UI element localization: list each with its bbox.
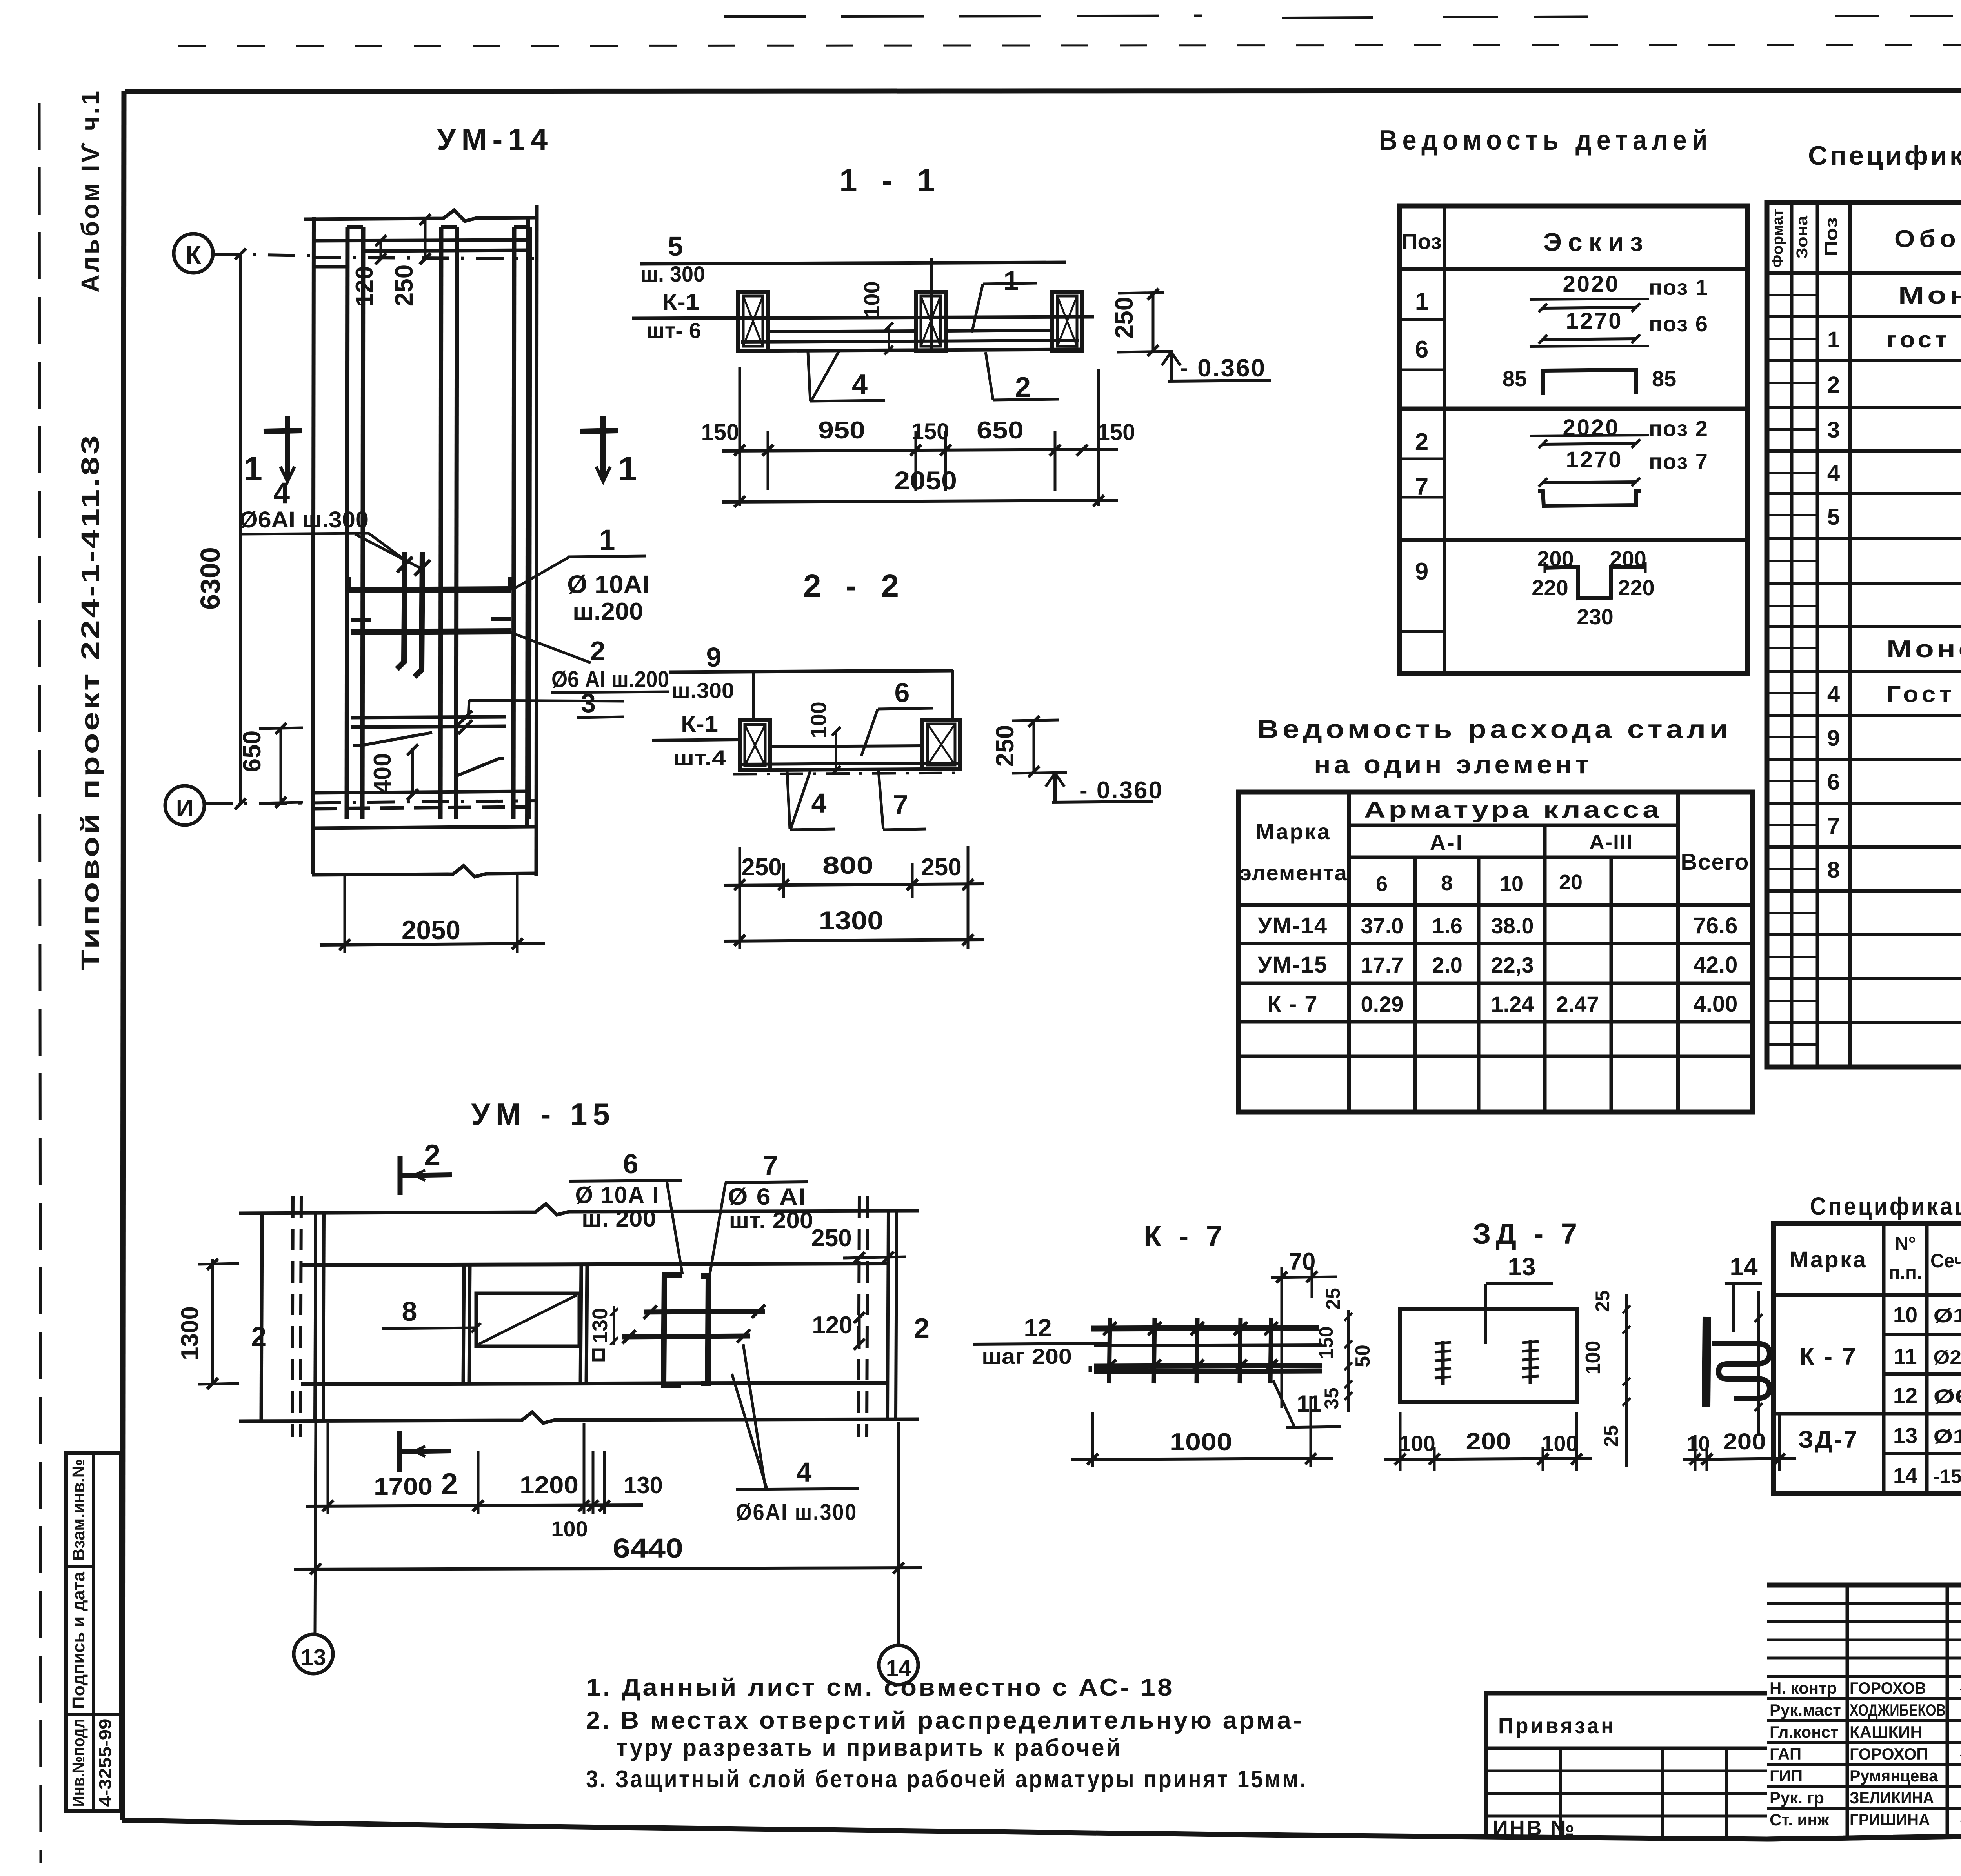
svg-text:Румянцева: Румянцева — [1850, 1767, 1938, 1785]
svg-text:13: 13 — [301, 1645, 326, 1670]
channel open-top shape — [1538, 491, 1641, 506]
svg-text:1: 1 — [244, 450, 262, 488]
svg-text:2.0: 2.0 — [1432, 953, 1463, 977]
svg-text:шт- 6: шт- 6 — [646, 318, 701, 343]
svg-text:220: 220 — [1532, 575, 1568, 600]
slab right ext edge — [536, 205, 537, 876]
dim 2050 — [344, 876, 346, 953]
svg-text:ГОРОХОВ: ГОРОХОВ — [1850, 1679, 1926, 1697]
svg-text:шт.4: шт.4 — [673, 745, 726, 770]
cage top bar — [1091, 1328, 1319, 1329]
scanner edge artifacts top — [724, 16, 1202, 16]
svg-text:13: 13 — [1508, 1252, 1535, 1281]
Спецификация металла table — [1774, 1223, 1961, 1493]
svg-text:ГИП: ГИП — [1770, 1767, 1803, 1785]
svg-text:12: 12 — [1893, 1383, 1917, 1408]
axis circle И — [165, 786, 204, 825]
svg-text:8: 8 — [1441, 871, 1453, 895]
svg-text:Ø10АІ: Ø10АІ — [1934, 1305, 1961, 1327]
rib 1 (vertical beam lines) — [347, 227, 347, 819]
dim 1000 — [1091, 1412, 1094, 1467]
svg-text:шт. 200: шт. 200 — [729, 1208, 813, 1233]
left section verticals — [1846, 1585, 1849, 1838]
section 2 cut mark bottom — [397, 1431, 402, 1472]
svg-text:250: 250 — [991, 725, 1019, 767]
elevation mark -0.360 — [1170, 352, 1173, 381]
svg-text:-150×10: -150×10 — [1934, 1465, 1961, 1487]
svg-text:800: 800 — [822, 852, 873, 879]
inner band bottom line — [301, 1383, 888, 1384]
svg-text:8: 8 — [402, 1296, 417, 1327]
svg-text:- 0.360: - 0.360 — [1079, 777, 1163, 804]
svg-text:ЗЕЛИКИНА: ЗЕЛИКИНА — [1850, 1789, 1934, 1807]
svg-text:50: 50 — [1352, 1345, 1374, 1367]
main frame bottom border — [122, 1820, 1961, 1839]
slab lower outline with break — [312, 866, 535, 877]
svg-text:9: 9 — [1827, 725, 1840, 751]
svg-text:Зона: Зона — [1794, 215, 1811, 259]
leader line К-1 — [652, 740, 740, 740]
svg-text:1200: 1200 — [520, 1472, 578, 1499]
svg-text:К-1: К-1 — [662, 289, 699, 315]
Привязан grid verticals — [1559, 1748, 1562, 1839]
svg-text:ГРИШИНА: ГРИШИНА — [1850, 1811, 1930, 1829]
svg-text:1. Данный лист см. совместн: 1. Данный лист см. совместно с АС- 18 — [586, 1674, 1174, 1701]
svg-text:14: 14 — [1730, 1252, 1758, 1281]
svg-text:6: 6 — [1415, 336, 1428, 363]
bent anchor hook — [1712, 1343, 1770, 1398]
svg-text:2.47: 2.47 — [1556, 992, 1599, 1016]
slab bottom band lines — [313, 791, 528, 793]
svg-text:22,3: 22,3 — [1491, 953, 1534, 977]
svg-text:2: 2 — [1415, 429, 1428, 456]
svg-text:А-ІІІ: А-ІІІ — [1589, 831, 1633, 854]
svg-text:п.п.: п.п. — [1889, 1263, 1922, 1283]
bars poz3 pair — [351, 717, 506, 718]
svg-text:37.0: 37.0 — [1361, 913, 1404, 938]
svg-text:К - 7: К - 7 — [1267, 991, 1318, 1017]
svg-text:100: 100 — [551, 1516, 588, 1541]
svg-text:Инв.№подл: Инв.№подл — [69, 1719, 88, 1807]
svg-text:3: 3 — [1827, 417, 1840, 443]
svg-text:Арматура класса: Арматура класса — [1364, 797, 1662, 823]
beam cross-section right — [1052, 292, 1082, 351]
svg-text:6: 6 — [623, 1149, 639, 1179]
rib 3 — [513, 227, 514, 819]
grid circle 14 — [879, 1645, 918, 1685]
left wall dashed verticals — [292, 1196, 293, 1437]
svg-text:Марка: Марка — [1790, 1247, 1867, 1272]
svg-text:Монолитный участок УМ-15: Монолитный участок УМ-15 — [1886, 636, 1961, 663]
svg-text:4.00: 4.00 — [1694, 991, 1738, 1017]
svg-text:9: 9 — [706, 642, 722, 673]
svg-text:Ø6АІ ш.300: Ø6АІ ш.300 — [736, 1500, 857, 1525]
top rebar poz1 (thick bar) — [347, 589, 511, 590]
svg-text:2: 2 — [251, 1321, 267, 1352]
svg-text:Н. контр: Н. контр — [1770, 1679, 1837, 1697]
svg-text:38.0: 38.0 — [1491, 913, 1534, 938]
svg-text:120: 120 — [812, 1312, 852, 1339]
left end vertical — [261, 1213, 262, 1421]
svg-text:Эскиз: Эскиз — [1543, 227, 1649, 256]
column lines — [1790, 202, 1794, 1067]
svg-text:1700: 1700 — [374, 1473, 433, 1500]
svg-text:4: 4 — [1827, 682, 1840, 707]
weld symbol left — [1441, 1341, 1445, 1385]
svg-text:1270: 1270 — [1566, 308, 1623, 334]
svg-text:2 - 2: 2 - 2 — [803, 568, 907, 604]
rebar poz2 (thick bar) — [351, 631, 511, 632]
svg-text:гост 5781-82: гост 5781-82 — [1886, 327, 1961, 353]
dim 6300 vertical line — [239, 254, 242, 804]
total dim 2050 — [722, 500, 1118, 502]
svg-text:5: 5 — [1827, 504, 1840, 530]
svg-text:Альбом ІѴ ч.1: Альбом ІѴ ч.1 — [76, 89, 104, 293]
beam cross-section left — [740, 720, 770, 770]
leader line 9 / slab top — [669, 671, 953, 672]
svg-text:150: 150 — [701, 420, 739, 445]
svg-text:100: 100 — [1541, 1431, 1578, 1456]
svg-text:- 0.360: - 0.360 — [1180, 354, 1266, 382]
label 2 leader — [510, 632, 591, 663]
svg-text:УМ-14: УМ-14 — [1258, 913, 1328, 938]
svg-text:85: 85 — [1503, 366, 1527, 391]
svg-text:К - 7: К - 7 — [1144, 1220, 1227, 1252]
left section name rows — [1767, 1675, 1961, 1678]
detail 14 dims 10 200 — [1694, 1435, 1697, 1471]
slab top band line — [314, 240, 528, 241]
fine row lines in narrow columns — [1767, 294, 1817, 296]
C-bar right (poz 7) — [701, 1276, 708, 1383]
Ведомость деталей table frame — [1399, 206, 1748, 673]
title block outer frame — [1767, 1585, 1961, 1839]
svg-text:1: 1 — [618, 450, 637, 488]
leader line К-1 — [632, 317, 1094, 318]
right wall verticals — [859, 1196, 859, 1437]
grid circle 13 — [294, 1634, 333, 1674]
dim 250 right — [1118, 293, 1164, 293]
bottom dimension chain — [739, 367, 741, 506]
main frame top border — [125, 90, 1961, 91]
beam cross-section right — [922, 720, 960, 769]
page top edge (faint cut line) — [178, 45, 1961, 46]
svg-text:Поз: Поз — [1822, 217, 1841, 256]
svg-text:Рук.маст: Рук.маст — [1770, 1701, 1841, 1719]
svg-text:ш.300: ш.300 — [671, 678, 734, 703]
svg-text:2: 2 — [914, 1313, 930, 1344]
svg-text:УМ-14: УМ-14 — [437, 122, 553, 156]
row lines — [1767, 315, 1961, 318]
slab right edge — [527, 218, 528, 828]
svg-text:1270: 1270 — [1566, 447, 1623, 473]
svg-text:230: 230 — [1577, 604, 1613, 629]
dim 250 tick line — [424, 220, 427, 259]
detail 14 side dim line — [1757, 1291, 1760, 1435]
slab top edge with break — [239, 1204, 919, 1215]
svg-text:Гост 5781-82: Гост 5781-82 — [1886, 682, 1961, 707]
svg-text:поз 1: поз 1 — [1649, 275, 1708, 300]
svg-text:3: 3 — [581, 688, 596, 718]
small square mark — [593, 1350, 604, 1360]
svg-text:4-3255-99: 4-3255-99 — [96, 1719, 115, 1807]
svg-text:КАШКИН: КАШКИН — [1850, 1723, 1922, 1741]
svg-text:9: 9 — [1415, 558, 1428, 585]
svg-text:8: 8 — [1827, 857, 1840, 883]
opening diagonal marks — [353, 733, 432, 746]
svg-text:150: 150 — [911, 419, 950, 444]
svg-text:7: 7 — [893, 789, 908, 820]
svg-text:ЗД-7: ЗД-7 — [1798, 1426, 1859, 1453]
svg-text:ИНВ №: ИНВ № — [1493, 1816, 1576, 1840]
svg-text:Ст. инж: Ст. инж — [1770, 1811, 1830, 1829]
svg-text:Ø 6 АІ: Ø 6 АІ — [728, 1183, 806, 1210]
svg-text:400: 400 — [369, 753, 396, 793]
svg-text:4: 4 — [811, 788, 827, 818]
total dim 1300 — [724, 940, 984, 941]
svg-text:4: 4 — [797, 1457, 812, 1487]
slab top edge with break — [304, 210, 537, 221]
slab bottom lines — [741, 763, 959, 764]
svg-text:7: 7 — [1415, 473, 1428, 500]
svg-text:К-1: К-1 — [681, 711, 718, 737]
svg-text:6: 6 — [895, 677, 910, 708]
svg-text:Монолитный участок УМ-14: Монолитный участок УМ-14 — [1898, 282, 1961, 309]
slab recessed top line — [770, 746, 922, 747]
svg-text:поз 6: поз 6 — [1649, 311, 1708, 336]
main frame left border — [122, 91, 124, 1820]
left section empty rows — [1767, 1602, 1961, 1605]
svg-text:1300: 1300 — [176, 1306, 204, 1360]
cage mid bar — [1094, 1345, 1322, 1346]
svg-text:5: 5 — [668, 231, 683, 262]
svg-text:2050: 2050 — [894, 466, 957, 495]
svg-text:1: 1 — [1827, 327, 1840, 353]
svg-text:25: 25 — [1592, 1290, 1614, 1312]
section outline verticals — [752, 671, 755, 722]
svg-text:950: 950 — [818, 417, 865, 444]
svg-text:Ø6 АІ ш.200: Ø6 АІ ш.200 — [551, 667, 669, 692]
svg-text:250: 250 — [741, 854, 782, 881]
svg-text:10: 10 — [1686, 1432, 1710, 1456]
header row line — [1767, 271, 1961, 275]
svg-text:250: 250 — [1110, 297, 1138, 339]
svg-text:1: 1 — [599, 524, 615, 556]
svg-text:ГОРОХОП: ГОРОХОП — [1850, 1745, 1928, 1763]
label 1 leader — [511, 557, 569, 590]
svg-text:Привязан: Привязан — [1498, 1713, 1616, 1738]
slab top surface line (leader 5) — [640, 262, 1066, 264]
svg-text:250: 250 — [811, 1225, 851, 1252]
svg-text:Обозначение: Обозначение — [1894, 225, 1961, 253]
svg-text:А-І: А-І — [1430, 830, 1464, 855]
svg-text:35: 35 — [1321, 1387, 1343, 1409]
svg-text:ш. 300: ш. 300 — [640, 262, 705, 286]
svg-text:ГАП: ГАП — [1770, 1745, 1801, 1763]
svg-text:13: 13 — [1893, 1423, 1917, 1448]
svg-text:4: 4 — [852, 369, 868, 400]
svg-text:150: 150 — [1097, 420, 1135, 445]
bottom dash-dot line — [733, 773, 965, 774]
slab bottom lines — [741, 340, 1079, 342]
page left edge (faint cut line) — [39, 103, 41, 1863]
beam cross-section left — [738, 292, 768, 351]
svg-text:4: 4 — [1827, 460, 1840, 486]
svg-text:Ведомость деталей: Ведомость деталей — [1379, 125, 1712, 156]
svg-text:14: 14 — [1893, 1463, 1917, 1488]
slab bottom edge with break — [239, 1412, 919, 1423]
svg-text:N°: N° — [1895, 1234, 1916, 1254]
svg-text:2: 2 — [1827, 372, 1840, 398]
svg-text:100: 100 — [1399, 1431, 1435, 1456]
svg-text:130: 130 — [624, 1472, 663, 1498]
beam cross-section middle — [916, 292, 946, 351]
Привязан cell line — [1486, 1747, 1767, 1750]
svg-text:Ø10АІ: Ø10АІ — [1934, 1425, 1961, 1447]
svg-text:2020: 2020 — [1563, 271, 1619, 297]
svg-text:1 - 1: 1 - 1 — [839, 163, 943, 198]
svg-text:2050: 2050 — [402, 915, 460, 945]
svg-text:Подпись и дата: Подпись и дата — [69, 1571, 88, 1709]
svg-text:2: 2 — [424, 1139, 440, 1172]
section 1 cut mark left — [264, 431, 302, 431]
svg-text:17.7: 17.7 — [1361, 953, 1404, 977]
svg-text:Спецификация металла на одн: Спецификация металла на одно изделие — [1810, 1192, 1961, 1220]
svg-text:120: 120 — [351, 266, 378, 306]
row lines — [1884, 1333, 1961, 1336]
Привязан grid horizontals — [1486, 1770, 1767, 1772]
svg-text:11: 11 — [1297, 1391, 1321, 1417]
svg-text:85: 85 — [1652, 366, 1676, 391]
svg-text:Ведомость расхода стали: Ведомость расхода стали — [1257, 714, 1732, 743]
label 3 leader to bars — [469, 700, 624, 701]
rib 2 — [440, 227, 441, 819]
svg-text:12: 12 — [1024, 1314, 1051, 1342]
section 2 cut mark top — [398, 1156, 403, 1195]
svg-text:на один элемент: на один элемент — [1314, 750, 1592, 779]
svg-text:100: 100 — [806, 702, 831, 738]
svg-text:0.29: 0.29 — [1361, 992, 1404, 1016]
svg-text:650: 650 — [238, 731, 266, 773]
svg-text:4: 4 — [273, 476, 290, 510]
svg-text:25: 25 — [1322, 1288, 1344, 1310]
svg-text:250: 250 — [921, 854, 961, 881]
mid extension vertical — [930, 258, 933, 350]
svg-text:Типовой проект 224-1-411.83: Типовой проект 224-1-411.83 — [76, 433, 104, 971]
svg-text:1: 1 — [1004, 265, 1019, 296]
bottom dims 250 800 250 — [739, 847, 741, 949]
bar poz4 upper — [644, 1311, 765, 1312]
svg-text:поз 7: поз 7 — [1649, 449, 1708, 474]
svg-text:Ø6АІ ш.300: Ø6АІ ш.300 — [239, 507, 369, 533]
svg-text:ХОДЖИБЕКОВ: ХОДЖИБЕКОВ — [1850, 1701, 1946, 1719]
svg-text:6300: 6300 — [195, 547, 226, 610]
svg-text:130: 130 — [588, 1308, 612, 1343]
svg-text:2: 2 — [590, 636, 606, 666]
svg-text:100: 100 — [1582, 1341, 1604, 1375]
svg-text:150: 150 — [1315, 1326, 1337, 1359]
dim 70 — [1281, 1267, 1283, 1408]
svg-text:И: И — [176, 795, 194, 822]
svg-text:42.0: 42.0 — [1694, 952, 1738, 978]
svg-text:УМ - 15: УМ - 15 — [471, 1097, 615, 1131]
svg-text:поз 2: поз 2 — [1649, 416, 1708, 441]
svg-text:туру разрезать и приварить: туру разрезать и приварить к рабочей — [616, 1734, 1122, 1761]
svg-text:К: К — [186, 240, 202, 269]
section 1 cut mark right — [580, 431, 618, 431]
svg-text:Рук. гр: Рук. гр — [1770, 1789, 1824, 1807]
svg-text:76.6: 76.6 — [1694, 913, 1738, 938]
svg-text:7: 7 — [1827, 813, 1840, 839]
поз column sub-lines — [1399, 318, 1444, 321]
svg-text:100: 100 — [859, 281, 884, 318]
svg-text:УМ-15: УМ-15 — [1258, 952, 1328, 978]
svg-text:ш. 200: ш. 200 — [582, 1206, 656, 1232]
opening diagonal — [478, 1295, 577, 1344]
svg-text:Ø 10А І: Ø 10А І — [575, 1182, 660, 1208]
svg-text:2. В местах отверстий распре: 2. В местах отверстий распределительную … — [586, 1707, 1304, 1734]
svg-text:650: 650 — [977, 417, 1024, 444]
svg-text:1.6: 1.6 — [1432, 913, 1463, 938]
svg-text:11: 11 — [1894, 1344, 1917, 1369]
cage vertical bars — [1109, 1318, 1110, 1383]
bottom dim chain — [327, 1423, 329, 1514]
svg-text:220: 220 — [1618, 575, 1654, 600]
svg-text:Марка: Марка — [1256, 819, 1331, 844]
svg-text:1.24: 1.24 — [1491, 992, 1534, 1016]
svg-text:10: 10 — [1500, 872, 1523, 896]
svg-text:К - 7: К - 7 — [1799, 1343, 1857, 1370]
plate rectangle — [1400, 1309, 1577, 1402]
opening rectangle — [476, 1293, 579, 1346]
svg-text:20: 20 — [1559, 871, 1583, 894]
slab bottom edge — [312, 827, 535, 828]
Привязан block frame — [1486, 1693, 1767, 1839]
svg-text:Формат: Формат — [1770, 209, 1786, 268]
elevation mark -0.360 — [1053, 773, 1057, 802]
C-bar left (poz 6) — [664, 1275, 682, 1385]
svg-text:Взам.инв.№: Взам.инв.№ — [69, 1459, 88, 1561]
axis К dash-dot line — [214, 254, 312, 256]
opening side double lines — [463, 1265, 464, 1384]
svg-text:Поз: Поз — [1402, 229, 1442, 254]
svg-text:Гл.конст: Гл.конст — [1770, 1723, 1839, 1741]
slab recessed top lines — [768, 331, 916, 332]
svg-text:ЗД - 7: ЗД - 7 — [1473, 1218, 1582, 1250]
margin stamp boxes bottom-left — [66, 1453, 121, 1811]
svg-text:1000: 1000 — [1170, 1429, 1232, 1456]
svg-text:70: 70 — [1289, 1248, 1316, 1275]
svg-text:200: 200 — [1466, 1428, 1511, 1454]
svg-text:Сечение: Сечение — [1930, 1250, 1961, 1272]
Ведомость расхода стали table — [1239, 792, 1752, 1112]
svg-text:25: 25 — [1600, 1425, 1622, 1447]
vertical plate — [1706, 1317, 1707, 1407]
svg-text:10: 10 — [1893, 1302, 1917, 1327]
svg-text:6: 6 — [1827, 769, 1840, 795]
svg-text:3. Защитный слой бетона раб: 3. Защитный слой бетона рабочей арматуры… — [586, 1766, 1308, 1793]
svg-text:1300: 1300 — [819, 906, 884, 935]
svg-text:6: 6 — [1376, 872, 1388, 896]
svg-text:Всего: Всего — [1681, 849, 1749, 875]
axis circle К — [174, 234, 213, 273]
svg-text:Ø 10АІ: Ø 10АІ — [567, 570, 649, 598]
svg-text:6440: 6440 — [613, 1533, 683, 1563]
svg-text:Ø6 АІ: Ø6 АІ — [1934, 1385, 1961, 1407]
slab left edge — [313, 217, 314, 874]
slab top band inner line — [314, 265, 347, 269]
svg-text:элемента: элемента — [1239, 860, 1348, 885]
svg-text:шаг 200: шаг 200 — [982, 1344, 1072, 1369]
